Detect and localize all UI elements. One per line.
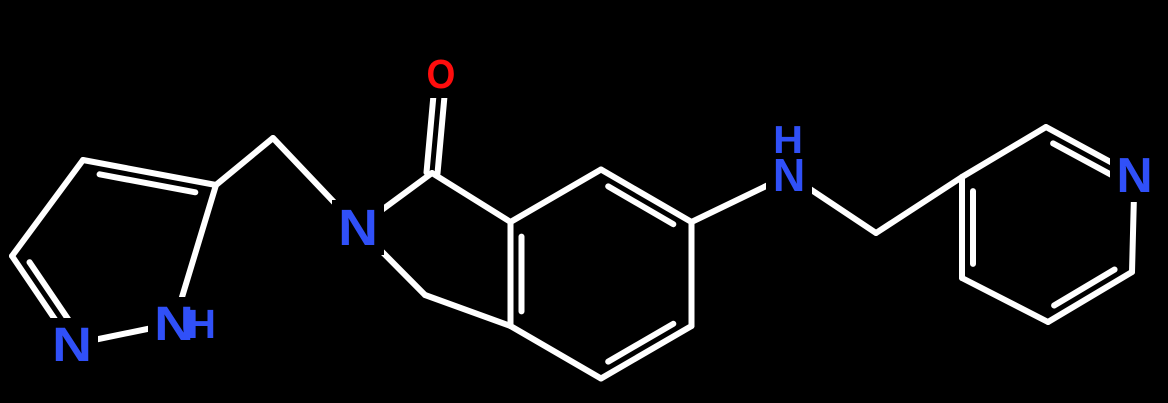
svg-text:H: H xyxy=(187,302,216,348)
svg-text:N: N xyxy=(338,200,378,256)
svg-text:N: N xyxy=(773,149,805,201)
svg-text:N: N xyxy=(1117,147,1153,203)
svg-text:O: O xyxy=(427,52,456,97)
svg-text:N: N xyxy=(52,317,92,371)
